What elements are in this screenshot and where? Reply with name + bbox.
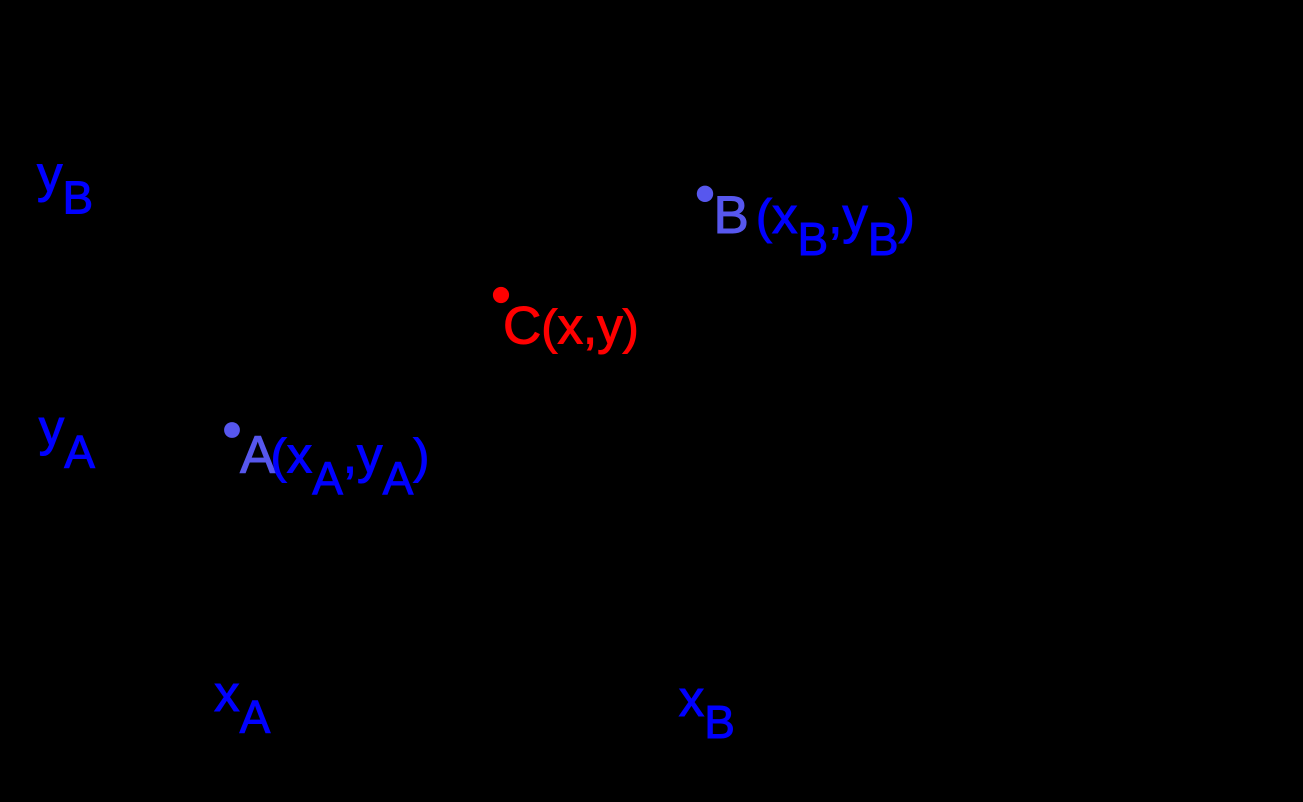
point A dot [224,422,240,438]
svg-text:C(x,y): C(x,y) [503,297,639,356]
point B dot [697,186,713,202]
point C dot [493,287,509,303]
